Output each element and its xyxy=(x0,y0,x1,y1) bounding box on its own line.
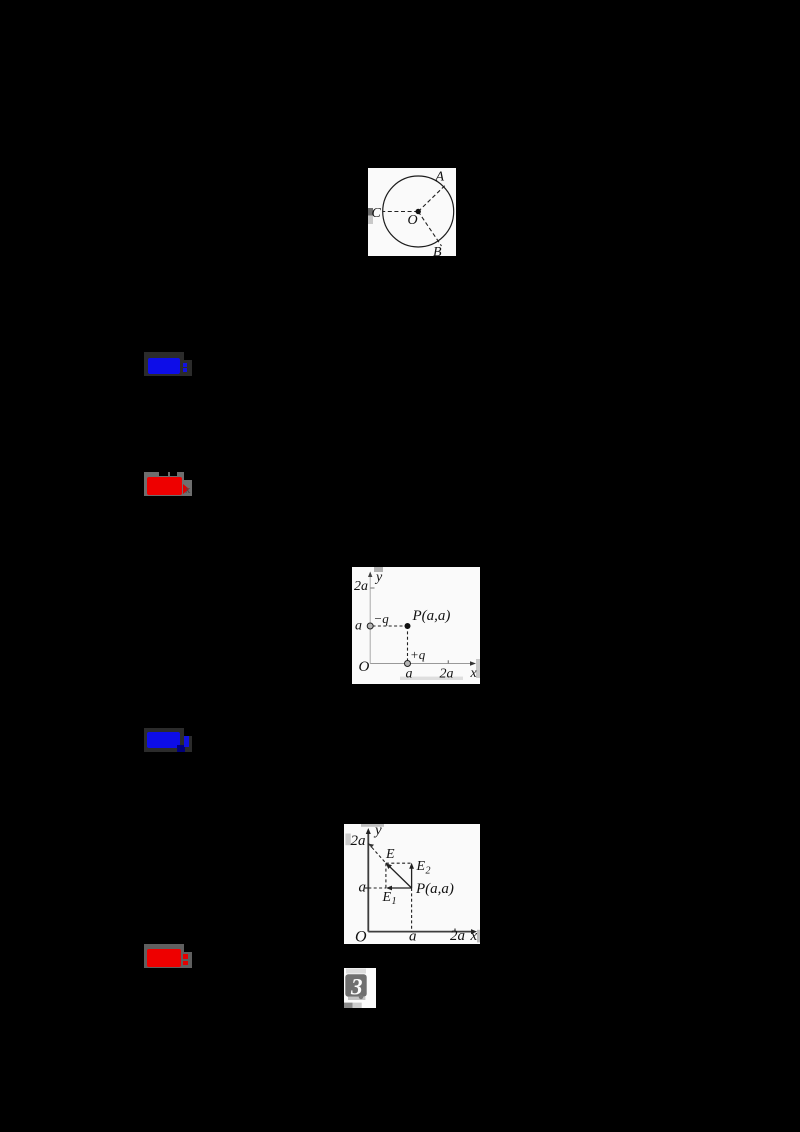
svg-text:2: 2 xyxy=(426,866,431,877)
svg-text:a: a xyxy=(409,929,417,945)
svg-text:2a: 2a xyxy=(354,579,368,594)
svg-text:E: E xyxy=(416,859,426,874)
svg-text:P(a,a): P(a,a) xyxy=(415,881,454,897)
svg-text:a: a xyxy=(359,880,367,896)
svg-text:C: C xyxy=(372,206,382,221)
svg-text:x: x xyxy=(470,928,478,944)
svg-text:y: y xyxy=(373,824,382,839)
svg-text:2a: 2a xyxy=(351,833,366,849)
svg-text:y: y xyxy=(374,570,383,585)
svg-text:2a: 2a xyxy=(440,667,454,682)
svg-text:a: a xyxy=(406,667,413,682)
svg-text:A: A xyxy=(435,170,445,185)
svg-text:O: O xyxy=(355,929,367,945)
svg-text:O: O xyxy=(408,213,418,228)
svg-text:E: E xyxy=(382,890,392,905)
svg-text:x: x xyxy=(470,666,478,681)
svg-text:+q: +q xyxy=(410,647,426,662)
svg-text:3: 3 xyxy=(350,975,363,1000)
svg-text:1: 1 xyxy=(392,896,397,907)
svg-text:a: a xyxy=(355,619,362,634)
svg-text:B: B xyxy=(433,245,442,256)
svg-text:O: O xyxy=(359,659,370,675)
svg-text:E: E xyxy=(385,847,395,862)
svg-text:−q: −q xyxy=(374,611,390,626)
svg-text:P(a,a): P(a,a) xyxy=(412,608,451,624)
svg-text:2a: 2a xyxy=(450,928,465,944)
